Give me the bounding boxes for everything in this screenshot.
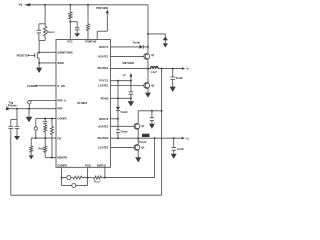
svg-text:BOOT1: BOOT1: [99, 45, 109, 49]
svg-text:Tsmth: Tsmth: [177, 148, 185, 151]
svg-text:PHASE2: PHASE2: [98, 136, 109, 140]
svg-text:Tsmth: Tsmth: [175, 76, 183, 80]
svg-text:PAD: PAD: [85, 164, 91, 168]
svg-text:Tsmth: Tsmth: [120, 130, 128, 133]
svg-text:/1_RD: /1_RD: [57, 84, 65, 88]
svg-text:LPVSmth: LPVSmth: [6, 104, 17, 107]
svg-text:SOMETHNG: SOMETHNG: [57, 50, 73, 54]
svg-text:UGATE1: UGATE1: [98, 54, 109, 58]
svg-text:LGATE1: LGATE1: [98, 84, 109, 88]
svg-text:PSMTH6: PSMTH6: [85, 40, 96, 44]
svg-text:UGATE2: UGATE2: [98, 124, 109, 128]
svg-text:ALSMP: ALSMP: [27, 84, 37, 88]
svg-text:Tsmth: Tsmth: [133, 41, 141, 45]
svg-text:Tsmth: Tsmth: [139, 140, 147, 144]
svg-text:Tsmth: Tsmth: [120, 110, 128, 114]
svg-text:FB: FB: [57, 137, 61, 141]
svg-text:COMPS: COMPS: [57, 164, 67, 168]
svg-text:LGATE2: LGATE2: [98, 145, 109, 149]
svg-text:SLMB4: SLMB4: [77, 101, 87, 105]
svg-text:SMTH035: SMTH035: [122, 61, 134, 65]
svg-text:L4u7: L4u7: [151, 70, 158, 74]
svg-text:COMP1: COMP1: [57, 116, 67, 120]
svg-text:MSMTH: MSMTH: [57, 156, 67, 160]
svg-text:SMTH2: SMTH2: [97, 164, 107, 168]
svg-text:+V: +V: [122, 73, 126, 77]
svg-text:Rsm: Rsm: [38, 147, 44, 150]
svg-text:PRF: PRF: [57, 107, 63, 111]
svg-text:PRF_A: PRF_A: [57, 98, 66, 102]
svg-text:WKB: WKB: [57, 61, 63, 65]
svg-text:RESET1: RESET1: [17, 54, 28, 58]
svg-text:VCC: VCC: [67, 40, 73, 44]
svg-text:PSMTHNG: PSMTHNG: [96, 7, 108, 10]
svg-text:Tag: Tag: [9, 100, 14, 104]
svg-text:PGND: PGND: [101, 96, 109, 100]
svg-text:PVCC1: PVCC1: [99, 79, 108, 83]
svg-text:PHASE1: PHASE1: [98, 66, 109, 70]
svg-text:BOOT2: BOOT2: [99, 117, 109, 121]
